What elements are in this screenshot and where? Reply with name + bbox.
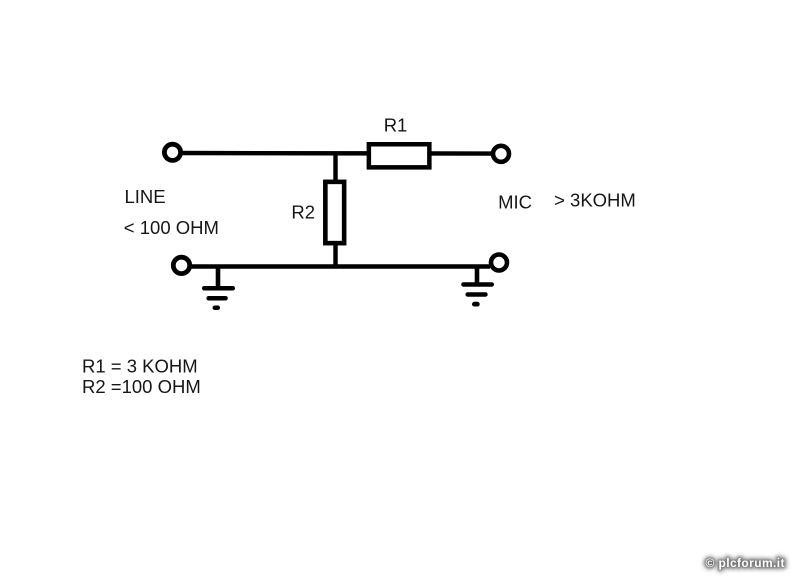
ground right bar 1	[461, 282, 494, 287]
ground right stub	[475, 267, 480, 283]
terminal circle, bottom-left ground side	[173, 257, 189, 273]
resistor R2 body	[325, 182, 344, 243]
watermark plcforum.it	[706, 556, 785, 570]
wire R2 stem vertical	[333, 153, 337, 267]
svg-text:LINE: LINE	[125, 186, 166, 207]
resistor R1 body	[369, 144, 430, 167]
svg-text:< 100 OHM: < 100 OHM	[124, 217, 219, 238]
svg-text:R1: R1	[384, 115, 408, 136]
svg-text:R2 =100 OHM: R2 =100 OHM	[82, 376, 201, 397]
svg-text:© plcforum.it: © plcforum.it	[706, 556, 785, 570]
svg-text:MIC: MIC	[498, 192, 532, 213]
terminal circle, output top-right	[493, 146, 509, 162]
ground left bar 2	[206, 296, 227, 301]
terminal circle, bottom-right ground side	[491, 255, 507, 271]
ground right bar 3	[472, 302, 480, 307]
svg-text:> 3KOHM: > 3KOHM	[554, 189, 636, 210]
wire top horizontal (LINE input to MIC output)	[180, 151, 493, 156]
ground left stub	[216, 267, 221, 287]
ground left bar 1	[202, 286, 235, 291]
terminal circle, input top-left	[164, 144, 180, 160]
ground right bar 2	[465, 292, 487, 297]
wire bottom horizontal (ground rail)	[190, 264, 490, 268]
ground left bar 3	[213, 306, 220, 311]
svg-text:R1 = 3 KOHM: R1 = 3 KOHM	[82, 355, 198, 376]
svg-text:R2: R2	[291, 201, 315, 222]
